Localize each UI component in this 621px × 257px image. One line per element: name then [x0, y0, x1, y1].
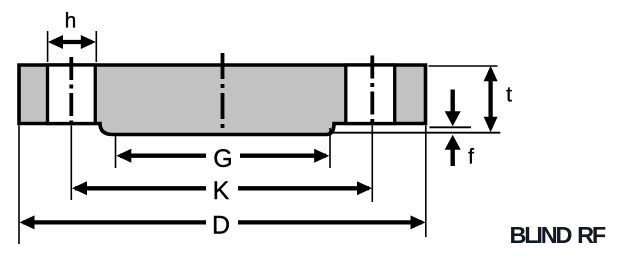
flange body (cross-section with raised face) [19, 65, 426, 135]
dimension arrow K [72, 181, 372, 195]
dimension arrow f upper (pointing down) [445, 90, 461, 127]
dimension arrow t [484, 66, 498, 132]
svg-text:BLIND RF: BLIND RF [510, 222, 606, 248]
extension line flange bottom (for f) [430, 126, 472, 128]
extension line G left [115, 133, 117, 168]
svg-text:K: K [213, 177, 230, 205]
dimension arrow D [20, 215, 426, 229]
svg-text:G: G [213, 145, 232, 173]
extension line G right [329, 128, 331, 168]
extension line D left [18, 126, 20, 245]
extension line h right [95, 31, 97, 62]
bolt hole right [346, 65, 395, 124]
extension line top of flange (for t) [429, 65, 498, 67]
extension line K right [371, 126, 373, 203]
svg-text:D: D [212, 212, 230, 240]
extension line D right [425, 126, 427, 238]
extension line raised face bottom (for t and f) [331, 132, 500, 134]
extension line K left [70, 126, 72, 201]
centerline flange axis [221, 53, 225, 134]
svg-text:f: f [468, 145, 474, 168]
dimension arrow G [116, 149, 329, 163]
bolt hole left [48, 65, 96, 124]
centerline left bolt [69, 57, 73, 123]
svg-text:h: h [65, 10, 77, 33]
extension line h left [47, 31, 49, 62]
svg-text:t: t [506, 83, 512, 106]
centerline right bolt [370, 56, 374, 124]
dimension arrow h [48, 35, 96, 49]
dimension arrow f lower (pointing up) [445, 135, 461, 166]
